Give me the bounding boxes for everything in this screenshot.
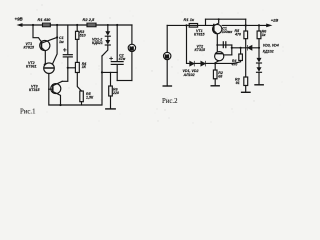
- resistor R3: [76, 25, 79, 62]
- wire C2 to motor column: [117, 80, 132, 82]
- transistor VT1 fig2: [213, 19, 222, 51]
- svg-text:220: 220: [112, 91, 119, 95]
- resistor R4 fig2: [234, 48, 243, 64]
- node lower junction: [101, 71, 103, 73]
- wire C1/VT2 column: [53, 25, 58, 64]
- svg-text:R1 1к: R1 1к: [184, 17, 195, 22]
- plus sign C2: [110, 57, 113, 60]
- riser wireA to railB left: [205, 19, 207, 25]
- riser railB end to wire A: [245, 19, 247, 25]
- svg-text:АЛ102: АЛ102: [183, 73, 195, 77]
- node R4 feed: [67, 67, 69, 69]
- svg-text:R2 2,5: R2 2,5: [83, 17, 96, 22]
- svg-text:Рис.1: Рис.1: [20, 109, 36, 116]
- transistor VT2: [44, 63, 55, 89]
- svg-text:91: 91: [236, 81, 240, 85]
- svg-text:R1 430: R1 430: [38, 17, 52, 22]
- node VD branch: [185, 24, 187, 26]
- svg-text:VD3, VD4: VD3, VD4: [263, 44, 279, 48]
- supply arrow +9V: [17, 23, 23, 27]
- resistor R6 fig1: [106, 72, 115, 109]
- svg-text:100мк: 100мк: [222, 30, 233, 34]
- svg-text:КД521: КД521: [92, 41, 103, 45]
- capacitor C1 fig2: [216, 42, 232, 55]
- svg-text:1,5К: 1,5К: [86, 96, 94, 100]
- svg-text:КТ315: КТ315: [29, 88, 40, 92]
- svg-text:Рис.2: Рис.2: [162, 98, 178, 105]
- wire A left (to VT1 base): [167, 24, 214, 26]
- svg-text:470: 470: [231, 63, 238, 67]
- resistor R5: [80, 91, 84, 105]
- diode VD1 fig2: [190, 61, 195, 66]
- svg-text:КТ315: КТ315: [195, 48, 206, 52]
- svg-text:+9В: +9В: [15, 17, 24, 22]
- transistor VT3: [49, 81, 62, 105]
- capacitor C2: [111, 24, 123, 81]
- wire VT3 collector riser: [62, 68, 68, 82]
- node VT1 base column: [32, 24, 34, 26]
- svg-text:КТ815: КТ815: [24, 46, 35, 50]
- node R5 top: [245, 24, 247, 26]
- svg-text:КТ361: КТ361: [26, 65, 36, 69]
- node collector VT1: [56, 24, 58, 26]
- wire VD3: [232, 47, 259, 49]
- resistor R2 fig2: [211, 63, 219, 85]
- supply arrow +2V: [266, 24, 272, 28]
- wire to VT1 base: [33, 25, 41, 42]
- diode VD4 vertical: [255, 48, 263, 85]
- svg-text:+2В: +2В: [271, 17, 279, 22]
- svg-text:1м: 1м: [59, 40, 64, 44]
- resistor R5 fig2: [244, 25, 248, 77]
- bottom rail fig1: [49, 56, 102, 105]
- motor M1 fig2: [163, 25, 171, 86]
- resistor R1 fig2: [189, 24, 197, 28]
- collector rail B: [206, 18, 246, 20]
- plus sign C1: [63, 49, 66, 52]
- diode VD1: [105, 25, 110, 36]
- svg-text:КТ815: КТ815: [194, 33, 205, 37]
- diode VD2: [102, 36, 110, 56]
- node VD3 wire left: [231, 47, 233, 49]
- capacitor C1: [63, 25, 72, 68]
- node R3 column top: [76, 24, 78, 26]
- node diode column: [107, 24, 109, 26]
- diode VD2 fig2: [201, 61, 206, 66]
- node R6 top: [258, 24, 260, 26]
- resistor R6 fig2: [257, 25, 261, 47]
- transistor VT1: [40, 37, 57, 63]
- transistor VT2 fig2: [215, 52, 232, 64]
- svg-text:1к: 1к: [262, 33, 266, 37]
- node R2 top: [214, 62, 216, 64]
- svg-text:470: 470: [234, 32, 241, 36]
- resistor R1: [43, 23, 51, 27]
- motor M1 fig1: [128, 25, 135, 81]
- svg-text:КД102: КД102: [263, 49, 274, 53]
- resistor R3 fig2: [242, 77, 250, 92]
- svg-text:M: M: [130, 46, 134, 51]
- resistor R2: [87, 23, 96, 27]
- scan speckle noise: [8, 4, 294, 123]
- wire A right (supply): [222, 24, 267, 26]
- diode VD3 (points left): [248, 45, 252, 50]
- svg-text:M: M: [165, 54, 169, 59]
- top rail fig1: [22, 24, 133, 26]
- resistor R4: [75, 62, 81, 91]
- wire to R4: [68, 67, 76, 69]
- wire junction to C2: [102, 71, 117, 73]
- svg-text:68: 68: [218, 75, 222, 79]
- wire VD branch / LED wire: [187, 25, 234, 63]
